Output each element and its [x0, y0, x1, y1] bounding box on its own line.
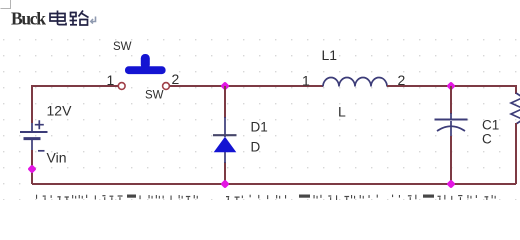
- switch pin 1 terminal circle: [118, 83, 125, 90]
- wire: bottom rail: [32, 183, 516, 185]
- capacitor C1 (polarized): [435, 113, 468, 136]
- return mark: [91, 17, 96, 24]
- wire: right edge vertical: [515, 123, 517, 184]
- resistor R load (cut off at right edge): [511, 93, 520, 124]
- wire: top-left from battery to switch pin1: [32, 86, 118, 123]
- battery V1 (12V source): [20, 120, 48, 151]
- 路: [71, 13, 77, 17]
- svg-text:1: 1: [302, 73, 310, 89]
- svg-text:L1: L1: [322, 47, 338, 63]
- svg-text:C1: C1: [482, 118, 499, 133]
- junction: diode bottom node: [220, 179, 229, 188]
- 电: [57, 11, 59, 22]
- svg-text:Vin: Vin: [47, 150, 67, 166]
- svg-text:2: 2: [172, 71, 180, 87]
- inductor L1 humps: [323, 78, 387, 87]
- switch pin 2 terminal circle: [163, 83, 170, 90]
- wire: switch pin2 to inductor: [170, 85, 323, 87]
- junction: battery negative node: [27, 164, 36, 173]
- svg-text:SW: SW: [113, 41, 132, 53]
- svg-text:L: L: [338, 104, 346, 120]
- cut-off caption text (tops of Chinese characters): [36, 195, 496, 201]
- wire: diode branch vertical: [224, 86, 226, 118]
- svg-text:D: D: [251, 140, 261, 155]
- wire: capacitor branch: [450, 86, 452, 114]
- svg-text:12V: 12V: [47, 103, 73, 119]
- svg-text:SW: SW: [145, 90, 164, 102]
- wire: battery negative down to bottom rail: [31, 150, 33, 184]
- svg-text:C: C: [482, 132, 492, 147]
- diode D1: [213, 117, 237, 163]
- junction: switch/diode node: [220, 81, 229, 90]
- svg-text:Buck: Buck: [11, 9, 46, 29]
- switch SW button body: [125, 54, 166, 74]
- svg-text:D1: D1: [251, 120, 268, 135]
- page corner mark: [1, 0, 11, 9]
- junction: output node top: [446, 81, 455, 90]
- wire: inductor to output node and right edge: [387, 86, 516, 94]
- title: Buck 电路: [11, 9, 96, 29]
- junction: capacitor bottom node: [446, 179, 455, 188]
